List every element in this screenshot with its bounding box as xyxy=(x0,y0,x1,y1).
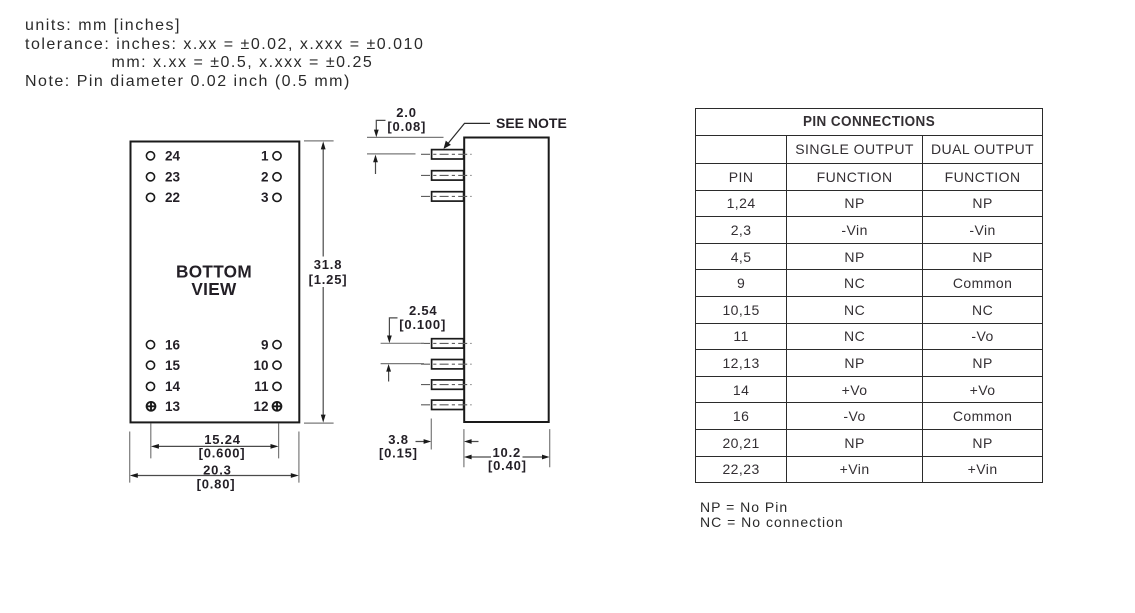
svg-text:[0.08]: [0.08] xyxy=(387,119,426,134)
svg-text:14: 14 xyxy=(165,379,181,394)
svg-text:2.0: 2.0 xyxy=(396,105,416,120)
svg-text:1: 1 xyxy=(261,149,269,164)
svg-text:16: 16 xyxy=(165,337,181,352)
svg-text:12: 12 xyxy=(253,399,268,414)
svg-text:[0.100]: [0.100] xyxy=(399,317,446,332)
svg-text:31.8: 31.8 xyxy=(314,257,343,272)
svg-text:11: 11 xyxy=(254,379,269,394)
svg-text:VIEW: VIEW xyxy=(191,279,237,299)
svg-text:10: 10 xyxy=(253,358,268,373)
svg-text:23: 23 xyxy=(165,170,181,185)
svg-text:9: 9 xyxy=(261,337,269,352)
svg-text:[0.80]: [0.80] xyxy=(197,476,236,491)
svg-text:22: 22 xyxy=(165,190,180,205)
svg-text:[0.600]: [0.600] xyxy=(199,445,246,460)
svg-text:2.54: 2.54 xyxy=(409,303,438,318)
svg-text:3: 3 xyxy=(261,190,269,205)
svg-text:SEE NOTE: SEE NOTE xyxy=(496,115,567,131)
svg-text:[0.40]: [0.40] xyxy=(488,458,527,473)
svg-text:[0.15]: [0.15] xyxy=(379,446,418,461)
svg-text:13: 13 xyxy=(165,399,181,414)
svg-text:2: 2 xyxy=(261,170,269,185)
svg-text:[1.25]: [1.25] xyxy=(309,272,348,287)
svg-text:20.3: 20.3 xyxy=(203,462,232,477)
svg-text:24: 24 xyxy=(165,149,181,164)
svg-text:15: 15 xyxy=(165,358,181,373)
